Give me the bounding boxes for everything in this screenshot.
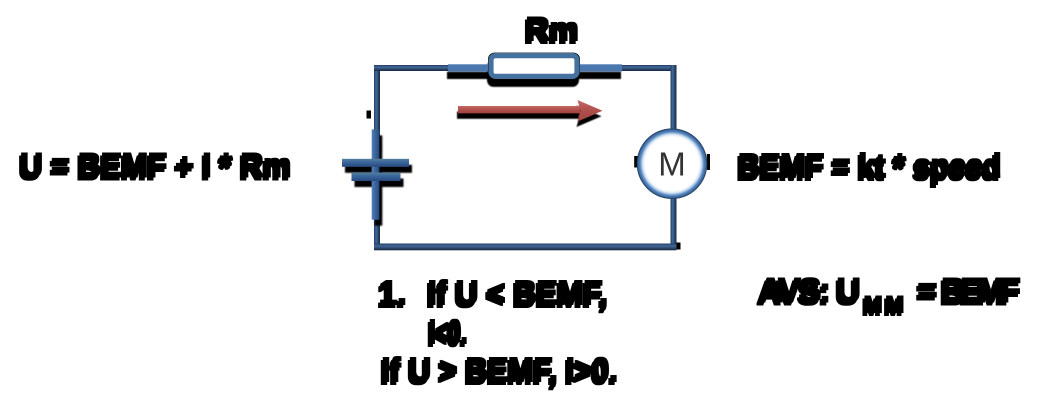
wire bottom horizontal segment <box>374 244 677 251</box>
svg-text:AVS: UMM=BEMF: AVS: UMM=BEMF <box>759 272 1021 318</box>
svg-text:M: M <box>658 146 686 183</box>
svg-text:I<0.: I<0. <box>429 313 467 350</box>
current arrow I <box>458 100 603 122</box>
wire shadow tick bottom right corner <box>677 243 681 250</box>
motor M <box>634 129 710 199</box>
battery U (voltage source) <box>342 129 409 219</box>
svg-text:1.: 1. <box>379 274 407 311</box>
svg-text:If U < BEMF,: If U < BEMF, <box>428 274 608 311</box>
wire top horizontal segment <box>374 65 677 71</box>
svg-text:U = BEMF + I * Rm: U = BEMF + I * Rm <box>20 147 291 184</box>
svg-text:BEMF = kt * speed: BEMF = kt * speed <box>738 147 1001 184</box>
wire right vertical segment <box>671 65 677 250</box>
battery shadow tick on left wire <box>367 111 372 119</box>
wire left vertical segment <box>374 65 380 250</box>
resistor Rm <box>448 53 622 79</box>
svg-text:Rm: Rm <box>526 11 579 47</box>
svg-text:If U > BEMF, I>0.: If U > BEMF, I>0. <box>382 351 618 388</box>
